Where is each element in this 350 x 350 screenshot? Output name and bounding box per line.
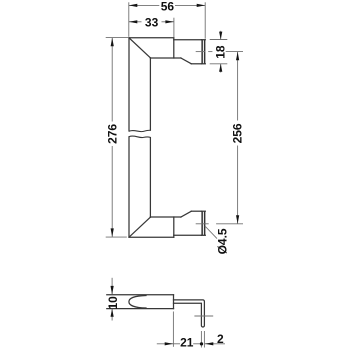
top joint vertical line x=33	[173, 38, 175, 58]
svg-text:56: 56	[161, 0, 175, 13]
thin arm with wall bracket	[174, 300, 205, 327]
ext line left x=128.8	[128, 2, 130, 37]
top cap right edge	[204, 40, 206, 64]
svg-text:10: 10	[106, 296, 120, 310]
grip section bullet curve	[129, 296, 146, 309]
ext line x=201.4	[200, 331, 202, 348]
ext line right x=173.9	[173, 18, 175, 38]
arrow 256 bottom	[236, 215, 239, 224]
bottom chamfer diagonal	[129, 217, 150, 237]
dim line 33 left segment	[129, 21, 142, 23]
plan top edge	[107, 294, 174, 296]
dim line 33 right segment	[162, 21, 174, 23]
plan right edge	[173, 295, 175, 309]
grip right edge (upper)	[149, 58, 151, 130]
arrow 276 top	[111, 38, 114, 47]
dim line 56 right segment	[175, 4, 205, 6]
ext line right x=204.8	[204, 2, 206, 38]
top cylinder bottom edge	[191, 63, 201, 65]
bottom cap top edge	[201, 210, 205, 212]
bottom cap vertical line 1	[201, 211, 203, 235]
dim line 56 left segment	[129, 4, 160, 6]
svg-text:18: 18	[213, 45, 227, 59]
handle top edge	[129, 37, 174, 39]
dim line 21 right segment	[193, 343, 200, 345]
bottom cap bottom edge	[201, 234, 205, 236]
grip right edge (lower)	[149, 138, 151, 218]
bottom ferrule centre line	[196, 223, 209, 225]
arrow 18 top (outside, pointing down)	[220, 31, 222, 40]
dim line 276 upper segment	[111, 38, 113, 122]
top arm inner (bottom) edge	[150, 57, 181, 59]
svg-text:21: 21	[180, 335, 194, 349]
svg-text:2: 2	[217, 332, 224, 346]
svg-text:276: 276	[106, 124, 120, 144]
arrow 33 left	[129, 20, 138, 23]
svg-text:256: 256	[231, 123, 245, 143]
top cap vertical line 1	[201, 40, 203, 64]
arrow 56 left	[129, 4, 138, 7]
dim line 21 left segment	[173, 343, 180, 345]
arrow 18 bottom (outside, pointing up)	[220, 64, 222, 73]
top ferrule centre line	[196, 51, 206, 53]
dim line 276 lower segment	[111, 146, 113, 237]
arrow 10 bottom (outside, pointing up)	[111, 309, 113, 321]
top chamfer diagonal	[129, 38, 150, 58]
arrow 276 bottom	[111, 228, 114, 237]
arrow 256 top	[236, 52, 239, 61]
svg-text:Ø4.5: Ø4.5	[216, 228, 230, 254]
bottom joint vertical line	[173, 217, 175, 237]
ext line top y=39.5	[210, 39, 228, 41]
dot terminator	[200, 342, 203, 345]
plan bottom edge	[107, 308, 174, 310]
svg-text:33: 33	[145, 16, 159, 30]
bottom neck diagonal	[181, 211, 191, 217]
ext line top y=37.6	[106, 37, 129, 39]
21 outside arrow left (pointing right)	[157, 343, 173, 345]
arrow 56 right	[197, 4, 206, 7]
bottom outer section bottom edge	[174, 234, 202, 236]
ext line x=204.4	[203, 331, 205, 348]
handle grip left edge (upper)	[128, 38, 130, 131]
bottom cylinder top edge	[191, 210, 201, 212]
ext line bottom y=237.1	[106, 236, 127, 238]
top cap bottom edge	[201, 63, 205, 65]
break line upper wavy	[129, 130, 150, 131]
ext line bottom y=63.8	[210, 63, 228, 65]
plan centre line at screw	[194, 315, 213, 317]
bottom cap right edge	[204, 211, 206, 235]
2 outside arrow (pointing left)	[205, 343, 225, 345]
ext line x=173.4	[172, 312, 174, 347]
top cap top edge	[201, 39, 205, 41]
dim line 256 lower segment	[237, 146, 239, 224]
top neck diagonal	[181, 58, 191, 64]
bottom arm inner (top) edge	[150, 216, 181, 218]
top outer section top edge	[174, 39, 202, 41]
break line lower wavy	[129, 136, 150, 138]
arrow 10 top (outside, pointing down)	[111, 278, 113, 295]
arrow 33 right	[165, 20, 174, 23]
handle grip left edge (lower)	[128, 137, 130, 237]
dim line 256 upper segment	[237, 52, 239, 121]
leader line	[205, 226, 217, 239]
handle bottom edge	[129, 236, 174, 238]
